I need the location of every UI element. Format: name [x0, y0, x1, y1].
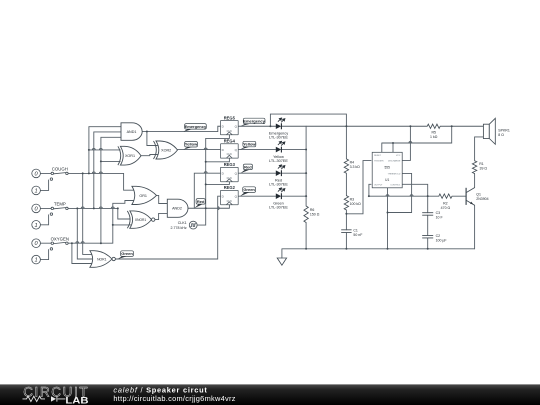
svg-text:AND2: AND2	[172, 207, 182, 211]
svg-text:LAB: LAB	[65, 396, 88, 405]
svg-text:XOR1: XOR1	[125, 154, 135, 158]
svg-text:Yellow: Yellow	[185, 142, 198, 147]
svg-text:1 kΩ: 1 kΩ	[430, 135, 438, 139]
svg-text:RESET: RESET	[374, 155, 382, 157]
svg-text:CLK: CLK	[227, 152, 232, 156]
svg-text:REG2: REG2	[224, 185, 236, 190]
svg-text:XOR2: XOR2	[161, 148, 171, 152]
svg-text:R5: R5	[431, 131, 436, 135]
svg-text:C3: C3	[436, 211, 441, 215]
svg-text:Red: Red	[197, 199, 205, 204]
svg-text:LTL-307EE: LTL-307EE	[269, 159, 288, 163]
svg-text:R6: R6	[310, 208, 315, 212]
svg-text:C1: C1	[353, 228, 358, 232]
svg-text:R1: R1	[479, 162, 484, 166]
svg-text:2.778 kHz: 2.778 kHz	[171, 226, 187, 230]
svg-text:Red: Red	[244, 164, 252, 169]
svg-text:REG4: REG4	[224, 139, 236, 144]
svg-text:REG5: REG5	[224, 115, 236, 120]
svg-text:SPKR1: SPKR1	[498, 128, 510, 132]
svg-text:OR1: OR1	[139, 194, 147, 198]
svg-text:C2: C2	[436, 234, 441, 238]
svg-text:http://circuitlab.com/crjjg6mk: http://circuitlab.com/crjjg6mkw4vrz	[113, 394, 235, 403]
svg-text:100 kΩ: 100 kΩ	[350, 202, 362, 206]
svg-text:1: 1	[35, 188, 38, 194]
svg-text:R2: R2	[443, 202, 448, 206]
svg-text:Green: Green	[243, 187, 255, 192]
svg-text:Emergency: Emergency	[185, 124, 207, 129]
svg-text:COUGH: COUGH	[52, 167, 68, 172]
svg-text:LTL-307EE: LTL-307EE	[269, 183, 288, 187]
svg-text:VCC: VCC	[396, 155, 401, 157]
svg-text:NOR1: NOR1	[97, 257, 107, 261]
svg-text:LTL-307EE: LTL-307EE	[269, 136, 288, 140]
svg-text:Emergency: Emergency	[243, 118, 265, 123]
svg-text:XNOR1: XNOR1	[135, 218, 147, 222]
svg-text:THRESHOLD: THRESHOLD	[388, 173, 401, 175]
svg-text:AND1: AND1	[127, 130, 137, 134]
svg-text:1: 1	[35, 223, 38, 229]
svg-text:R4: R4	[350, 161, 355, 165]
svg-text:150 Ω: 150 Ω	[310, 212, 320, 216]
svg-text:R3: R3	[350, 197, 355, 201]
svg-text:100 µF: 100 µF	[436, 238, 447, 242]
svg-text:3.3 kΩ: 3.3 kΩ	[350, 165, 361, 169]
svg-text:U1: U1	[385, 178, 389, 182]
svg-text:CLK: CLK	[227, 176, 232, 180]
svg-text:CLK: CLK	[227, 129, 232, 133]
svg-text:10 F: 10 F	[436, 216, 443, 220]
svg-text:CLK1: CLK1	[178, 221, 187, 225]
svg-text:Q1: Q1	[476, 192, 481, 196]
svg-text:TEMP: TEMP	[54, 202, 66, 207]
svg-text:TRIGGER: TRIGGER	[374, 161, 384, 163]
svg-text:8 Ω: 8 Ω	[498, 133, 504, 137]
svg-text:39 Ω: 39 Ω	[480, 167, 488, 171]
svg-text:LTL-307EE: LTL-307EE	[269, 206, 288, 210]
svg-text:470 Ω: 470 Ω	[441, 206, 451, 210]
svg-text:Green: Green	[121, 251, 133, 256]
svg-text:CLK: CLK	[227, 199, 232, 203]
svg-text:CONTROL: CONTROL	[390, 184, 401, 186]
svg-text:50 nF: 50 nF	[353, 233, 362, 237]
svg-text:1: 1	[35, 258, 38, 264]
svg-text:OUTPUT: OUTPUT	[374, 184, 383, 186]
svg-text:OXYGEN: OXYGEN	[51, 237, 69, 242]
svg-text:REG3: REG3	[224, 162, 236, 167]
svg-text:2N3904: 2N3904	[476, 197, 488, 201]
svg-text:DISCHARGE: DISCHARGE	[388, 160, 401, 163]
svg-text:Yellow: Yellow	[243, 142, 256, 147]
svg-text:555: 555	[385, 166, 391, 170]
